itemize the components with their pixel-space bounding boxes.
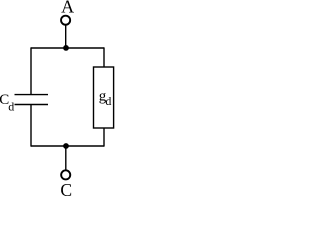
terminal A (open circle) [61, 16, 70, 25]
svg-text:A: A [61, 0, 74, 17]
wire terminal A to top rail [65, 25, 67, 48]
capacitor Cd bottom plate [15, 104, 49, 106]
wire right branch lower [103, 128, 105, 147]
resistor box gd [94, 67, 114, 128]
wire bottom node to terminal C [65, 146, 67, 170]
terminal C (open circle) [61, 170, 70, 179]
wire bottom rail [31, 145, 104, 147]
junction bottom node [63, 143, 69, 149]
wire left branch upper [30, 47, 32, 94]
svg-text:d: d [105, 94, 111, 108]
wire left branch lower [30, 105, 32, 147]
svg-text:C: C [60, 180, 72, 200]
junction top node [63, 45, 69, 51]
wire right branch upper [103, 47, 105, 67]
wire top rail [31, 47, 104, 49]
svg-text:d: d [8, 100, 14, 114]
capacitor Cd top plate [15, 94, 49, 96]
